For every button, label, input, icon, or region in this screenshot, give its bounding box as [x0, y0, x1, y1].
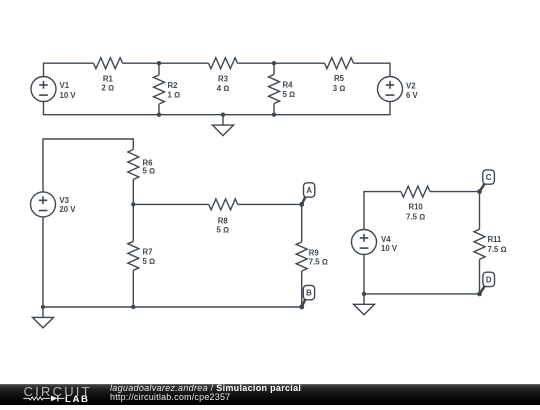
resistor R10: [401, 186, 430, 197]
svg-text:R9: R9: [309, 249, 320, 258]
node D tag: [480, 272, 495, 294]
junction ground top circuit: [221, 113, 225, 117]
node D junction: [477, 292, 482, 297]
wire V4 bottom rail: [364, 254, 480, 294]
resistor R8: [209, 199, 238, 210]
svg-text:1 Ω: 1 Ω: [168, 90, 181, 99]
svg-text:B: B: [306, 289, 312, 298]
svg-text:LAB: LAB: [65, 394, 90, 405]
wire R10 to node C: [430, 191, 480, 193]
svg-text:20 V: 20 V: [59, 205, 76, 214]
svg-text:10 V: 10 V: [381, 244, 398, 253]
svg-text:V3: V3: [59, 196, 69, 205]
resistor R5: [325, 58, 354, 69]
svg-text:3 Ω: 3 Ω: [333, 84, 346, 93]
logo wire resistor diode: [23, 396, 64, 402]
svg-text:5 Ω: 5 Ω: [283, 90, 296, 99]
svg-text:5 Ω: 5 Ω: [143, 257, 156, 266]
voltage source V4: [352, 230, 377, 255]
resistor R3: [209, 58, 238, 69]
svg-text:7.5 Ω: 7.5 Ω: [309, 258, 328, 267]
node B junction: [299, 305, 304, 310]
ground middle circuit: [33, 307, 54, 328]
wire V3 top rail: [43, 139, 133, 192]
resistor R6: [128, 150, 139, 205]
wire V4 top rail: [364, 192, 401, 230]
svg-text:R3: R3: [218, 74, 229, 83]
svg-text:10 V: 10 V: [60, 91, 77, 100]
svg-text:V4: V4: [381, 235, 391, 244]
svg-text:7.5 Ω: 7.5 Ω: [488, 245, 507, 254]
svg-text:C: C: [486, 173, 492, 182]
junction R4 bottom: [272, 113, 276, 117]
wire R5 to V2: [354, 63, 391, 76]
svg-text:R7: R7: [143, 248, 153, 257]
voltage source V3: [31, 192, 56, 217]
junction R6 R7 R8: [131, 202, 135, 206]
resistor R7: [128, 204, 139, 307]
wire V1 top to R1: [44, 63, 94, 76]
node B tag: [302, 285, 315, 307]
wire bottom rail top circuit: [44, 101, 391, 114]
voltage source V1: [31, 77, 56, 102]
wire R8 to node A: [238, 203, 302, 205]
junction R2 top: [157, 61, 161, 65]
wire V3 bottom rail: [43, 217, 302, 307]
junction R7 bottom: [131, 305, 135, 309]
resistor R4: [269, 63, 280, 114]
svg-text:R2: R2: [168, 81, 179, 90]
svg-text:R11: R11: [488, 235, 503, 244]
svg-text:5 Ω: 5 Ω: [216, 225, 229, 234]
svg-text:R1: R1: [103, 74, 114, 83]
resistor R11: [474, 192, 485, 294]
node A tag: [302, 183, 315, 205]
junction ground V3: [41, 305, 45, 309]
svg-text:http://circuitlab.com/cpe2357: http://circuitlab.com/cpe2357: [110, 392, 230, 402]
svg-text:2 Ω: 2 Ω: [102, 83, 115, 92]
voltage source V2: [378, 77, 403, 102]
svg-text:6 V: 6 V: [406, 91, 419, 100]
svg-text:V2: V2: [406, 81, 416, 90]
node A junction: [299, 202, 304, 207]
ground top circuit: [213, 115, 234, 136]
svg-text:7.5 Ω: 7.5 Ω: [406, 213, 425, 222]
svg-text:A: A: [306, 186, 312, 195]
ground right circuit: [354, 294, 375, 315]
svg-text:R8: R8: [218, 216, 229, 225]
svg-text:R10: R10: [408, 202, 423, 211]
resistor R2: [154, 63, 165, 114]
node C junction: [477, 189, 482, 194]
node C tag: [480, 170, 495, 192]
resistor R9: [296, 204, 307, 307]
wire junction to R8: [133, 203, 208, 205]
svg-text:R5: R5: [334, 74, 345, 83]
svg-text:4 Ω: 4 Ω: [217, 84, 230, 93]
junction R4 top: [272, 61, 276, 65]
svg-text:5 Ω: 5 Ω: [143, 167, 156, 176]
svg-text:D: D: [486, 275, 492, 284]
junction R2 bottom: [157, 113, 161, 117]
svg-text:R4: R4: [283, 81, 294, 90]
resistor R1: [94, 58, 123, 69]
junction ground V4: [362, 292, 366, 296]
svg-text:V1: V1: [60, 81, 70, 90]
wire R1 to R3: [123, 62, 209, 64]
wire R3 to R5: [238, 62, 325, 64]
